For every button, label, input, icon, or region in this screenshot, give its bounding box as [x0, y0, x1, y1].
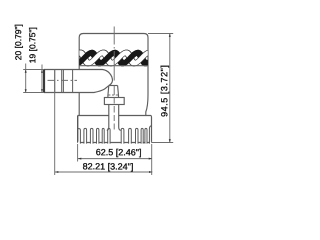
svg-text:82.21 [3.24"]: 82.21 [3.24"] [83, 161, 134, 171]
dim 20: arrows [25, 70, 27, 73]
svg-text:94.5 [3.72"]: 94.5 [3.72"] [159, 65, 169, 117]
dim 62.5: dimension line [78, 158, 152, 160]
pipe centerline [48, 79, 78, 81]
strainer slots [78, 126, 152, 144]
motor body outline [79, 34, 148, 116]
barb ridges [55, 70, 73, 93]
pipe end cap [43, 70, 45, 93]
dim 82.21: dimension line [55, 171, 152, 173]
svg-text:62.5 [2.46"]: 62.5 [2.46"] [96, 147, 142, 157]
strainer slot gaps [78, 142, 151, 145]
dim 20: extension lines [23, 70, 44, 93]
dim 20: dimension line [25, 64, 27, 93]
dim 19: arrows [41, 70, 43, 73]
shaft [107, 105, 121, 131]
dim 62.5: extension lines [78, 144, 152, 175]
dim 94.5: arrows [169, 34, 171, 37]
svg-text:20 [0.79"]: 20 [0.79"] [13, 24, 23, 60]
collar [104, 98, 124, 105]
rope band bottom line [79, 65, 148, 67]
dim 82.21: arrows [55, 171, 58, 173]
dim 19: dimension line [41, 65, 43, 93]
strainer base [78, 116, 152, 143]
svg-text:19 [0.75"]: 19 [0.75"] [27, 27, 37, 63]
dim 94.5: dimension line [169, 34, 171, 143]
rope band braid [76, 53, 152, 63]
dim 94.5: extension lines [148, 34, 173, 143]
dim 62.5: arrows [78, 158, 81, 160]
nozzle hidden dashes [108, 94, 118, 96]
outlet pipe (hose barb) [44, 70, 113, 93]
dim 82.21: extension line [54, 70, 56, 176]
nozzle [108, 86, 119, 98]
center line [113, 27, 115, 130]
